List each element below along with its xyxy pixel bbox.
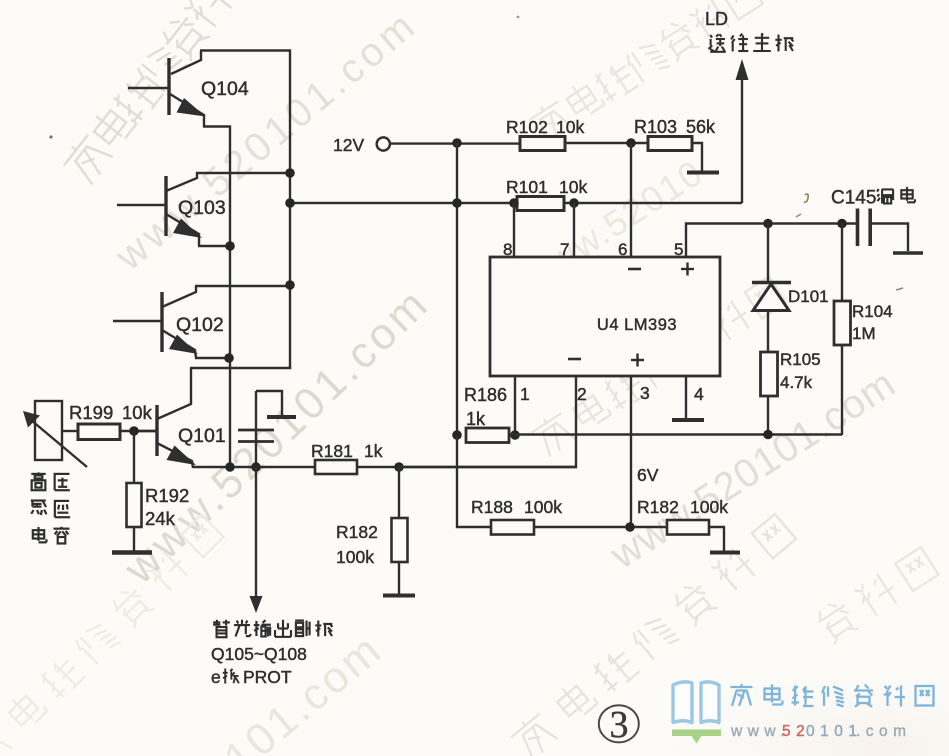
wire R182b to ground	[709, 527, 724, 551]
svg-text:e: e	[211, 667, 221, 687]
svg-text:R105: R105	[780, 350, 821, 369]
svg-text:Q103: Q103	[178, 197, 226, 219]
wire R192 bottom lead	[133, 527, 135, 551]
wire R186 row to right	[509, 433, 842, 435]
ground R182b	[710, 551, 740, 555]
IC minus bottom	[568, 358, 581, 361]
node pin6 junction	[626, 138, 636, 148]
svg-text:R199: R199	[69, 402, 113, 423]
IC plus top	[681, 263, 694, 276]
pin 7 lead	[573, 203, 575, 257]
node rail A bottom	[225, 462, 235, 472]
svg-text:R101: R101	[506, 177, 548, 197]
node Q102 emitter rail A	[224, 353, 234, 363]
transistor Q104	[128, 51, 206, 127]
resistor R199	[78, 424, 120, 440]
svg-text:U4 LM393: U4 LM393	[597, 316, 677, 334]
wire sensor to R199	[62, 430, 78, 432]
svg-text:56k: 56k	[686, 117, 716, 137]
logo site name	[731, 684, 934, 707]
capacitor C145	[858, 209, 924, 254]
wire 12V row2 from rail B	[290, 202, 742, 204]
wire Q103 emitter to rail A	[198, 245, 231, 247]
svg-text:1k: 1k	[466, 409, 486, 429]
scan speck 2	[804, 194, 808, 202]
node R192 top	[129, 426, 139, 436]
resistor R188	[491, 520, 534, 535]
wire Q104 collector top	[200, 49, 291, 51]
sensor capacitor symbol (HV sense)	[23, 401, 87, 467]
watermark row mid-right cjk	[529, 274, 787, 459]
pin 4 lead	[685, 376, 687, 418]
scan speck 4	[517, 16, 520, 19]
label backlight line3 e-pole PROT	[211, 667, 292, 687]
svg-text:3: 3	[610, 704, 629, 746]
svg-text:Q101: Q101	[178, 425, 226, 447]
node Q103 emitter rail A	[225, 241, 235, 251]
wire Q101 collector to rail B	[190, 366, 290, 368]
wire R192 top lead	[133, 431, 135, 483]
wire R182a top lead	[398, 467, 400, 518]
wire R103 to ground	[692, 143, 702, 171]
svg-text:8: 8	[503, 240, 512, 259]
pin 3 lead	[630, 376, 632, 527]
label R102 10k	[506, 117, 584, 137]
pin 8 lead	[513, 203, 515, 257]
wire R182a bottom lead	[398, 562, 400, 594]
wire R188 to node	[534, 526, 667, 528]
svg-text:R104: R104	[852, 302, 893, 321]
scan speck 3	[796, 214, 801, 217]
wire R199 to Q101 base	[120, 430, 157, 432]
IC U4 LM393 box	[490, 257, 720, 376]
svg-text:24k: 24k	[145, 508, 176, 529]
node R101 left pin8	[509, 198, 519, 208]
wire collector rail B	[289, 50, 291, 370]
resistor R102	[520, 137, 565, 151]
wire R104 leads	[841, 224, 843, 436]
svg-text:6V: 6V	[637, 465, 659, 485]
pin 5 lead and wire to C145 row	[686, 224, 857, 258]
label R182b 100k	[637, 497, 728, 517]
wire rail C vertical	[456, 143, 458, 434]
resistor R181	[315, 460, 357, 474]
svg-text:100k: 100k	[690, 497, 728, 517]
label backlight line1	[213, 620, 230, 637]
svg-text:2: 2	[577, 384, 587, 404]
wire Q104 emitter to rail A	[203, 125, 231, 127]
diode D101	[752, 224, 791, 353]
wire R105 bottom	[767, 396, 769, 435]
wire R181 to pin2 corner	[357, 466, 577, 468]
logo book icon	[672, 682, 721, 744]
IC plus bottom	[631, 354, 644, 367]
ground R103	[687, 171, 719, 175]
label to mainboard	[709, 34, 726, 52]
node backlight branch	[251, 462, 261, 472]
svg-text:R102: R102	[506, 117, 548, 137]
ground R182a	[383, 594, 415, 598]
wire 12V to R102	[390, 142, 520, 144]
svg-text:R181: R181	[311, 441, 353, 461]
wire Q102 collector to rail B	[195, 285, 290, 287]
transistor Q102	[113, 286, 198, 358]
label R103 56k	[634, 117, 716, 137]
svg-text:Q102: Q102	[176, 314, 224, 336]
svg-text:100k: 100k	[336, 547, 374, 567]
wire rail C to R188 row	[457, 435, 491, 527]
wire emitter rail A	[229, 126, 231, 469]
label R181 1k	[311, 441, 383, 461]
svg-text:1k: 1k	[364, 441, 383, 461]
resistor R192	[127, 483, 142, 527]
watermark row right www	[602, 361, 903, 578]
node 6V row	[625, 522, 635, 532]
resistor R182b	[667, 520, 709, 535]
svg-text:12V: 12V	[333, 135, 364, 155]
label HV sense cap line2	[31, 501, 47, 515]
node rail C row2	[452, 198, 462, 208]
resistor R104	[834, 301, 851, 345]
ground pin4	[672, 418, 704, 422]
svg-text:10k: 10k	[556, 117, 584, 137]
wire Q102 emitter to rail A	[195, 357, 231, 359]
watermark row bottom-right cjk	[508, 511, 797, 756]
svg-text:C145: C145	[831, 188, 876, 209]
svg-text:Q105~Q108: Q105~Q108	[211, 644, 307, 664]
resistor R105	[761, 352, 778, 396]
resistor R182a	[392, 518, 408, 562]
svg-text:1M: 1M	[852, 324, 876, 343]
watermark row bottom-center www	[215, 624, 392, 756]
logo url www.520101.com	[730, 723, 912, 740]
svg-text:Q104: Q104	[201, 78, 249, 100]
svg-text:PROT: PROT	[243, 667, 292, 687]
arrow LD to mainboard	[736, 59, 749, 203]
node R182a top	[394, 462, 404, 472]
watermark row mid www faint	[516, 151, 710, 297]
wire Q103 collector to rail B	[196, 172, 290, 174]
wire C145 row nodes	[763, 219, 847, 229]
svg-text:5: 5	[674, 240, 683, 259]
label R199 10k	[69, 402, 153, 423]
node 12V rail C top	[452, 138, 462, 148]
svg-text:.com: .com	[856, 723, 912, 740]
svg-text:R182: R182	[637, 497, 679, 517]
resistor R103	[648, 137, 692, 151]
watermark row bottom-right2 cjk	[813, 545, 940, 646]
watermark row upper-mid www	[107, 2, 426, 280]
watermark row bottom-left cjk	[0, 512, 225, 756]
node Q103 collector rail B	[285, 168, 295, 178]
transistor Q103	[117, 172, 202, 246]
label HV sense cap line3	[33, 527, 47, 542]
node R186 left	[452, 430, 462, 440]
svg-text:R188: R188	[471, 497, 513, 517]
pin 6 lead	[630, 143, 632, 257]
node R186 right pin1	[510, 430, 520, 440]
capacitor at Q101 (base-collector)	[238, 391, 296, 468]
node rail B row2	[285, 198, 295, 208]
node Q102 collector rail B	[285, 280, 295, 290]
transistor Q101	[135, 368, 196, 468]
svg-text:0101: 0101	[806, 723, 862, 740]
label HV sense cap line1	[31, 472, 45, 490]
svg-text:7: 7	[560, 240, 569, 259]
svg-text:R192: R192	[145, 485, 189, 506]
page number circled 3	[599, 704, 639, 746]
svg-text:R103: R103	[634, 117, 677, 137]
node R101 right pin7	[569, 198, 579, 208]
label C145 leakage	[831, 187, 915, 209]
arrow to backlight board	[250, 467, 263, 613]
pin 2 lead	[399, 376, 576, 467]
watermark row top-right cjk	[526, 0, 764, 147]
wire R102 to R103	[565, 142, 648, 144]
svg-text:10k: 10k	[122, 402, 153, 423]
label R188 100k	[471, 497, 562, 517]
svg-text:LD: LD	[705, 9, 728, 29]
terminal 12V	[377, 137, 390, 150]
pin 1 lead	[514, 376, 516, 434]
wire emitter bottom row	[193, 466, 315, 468]
svg-text:1: 1	[520, 384, 530, 404]
svg-text:4.7k: 4.7k	[780, 373, 813, 392]
svg-text:D101: D101	[788, 287, 829, 306]
IC minus top	[628, 268, 641, 271]
scan speck 5	[896, 288, 903, 290]
label R101 10k	[506, 177, 587, 197]
svg-text:R186: R186	[464, 385, 507, 405]
node R105 bottom	[763, 430, 773, 440]
svg-text:3: 3	[640, 383, 650, 403]
watermark row top-left	[60, 0, 258, 187]
svg-text:6: 6	[618, 240, 627, 259]
svg-text:R182: R182	[336, 522, 378, 542]
svg-text:4: 4	[694, 384, 704, 404]
resistor R101	[517, 197, 564, 211]
resistor R186	[466, 428, 509, 443]
svg-text:100k: 100k	[524, 497, 562, 517]
ground R192	[112, 550, 152, 555]
scan speck 1	[49, 135, 52, 138]
watermark row mid-left www	[114, 278, 439, 594]
svg-text:10k: 10k	[559, 177, 587, 197]
